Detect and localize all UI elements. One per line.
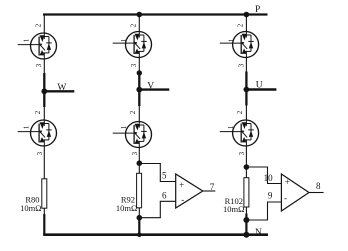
- svg-text:1: 1: [120, 38, 128, 42]
- junction N rail / column U: [243, 232, 249, 238]
- wire Q3 drain to P rail: [138, 15, 140, 33]
- bus P top rail: [43, 13, 268, 15]
- junction top rail / column V: [137, 12, 143, 18]
- transistor Q5 (top, phase U): [220, 32, 259, 58]
- wire R92 junction to N rail (bold): [138, 218, 140, 235]
- wire Q1 drain to P rail: [43, 15, 45, 34]
- wire phase W stub (bold): [44, 90, 74, 92]
- svg-text:U: U: [256, 81, 263, 91]
- svg-text:2: 2: [237, 23, 245, 27]
- wire R92 bottom: [138, 208, 140, 218]
- svg-text:-: -: [284, 193, 287, 203]
- junction node W: [41, 88, 47, 94]
- wire Q6 source down: [245, 146, 247, 167]
- resistor R102: [244, 178, 249, 207]
- svg-text:V: V: [147, 81, 154, 91]
- svg-text:9: 9: [268, 191, 273, 201]
- svg-text:3: 3: [131, 151, 139, 155]
- svg-text:P: P: [255, 5, 260, 15]
- svg-text:10mΩ: 10mΩ: [20, 203, 41, 213]
- svg-text:1: 1: [23, 125, 31, 129]
- svg-text:1: 1: [120, 125, 128, 129]
- wire Q5 drain to P rail: [245, 15, 247, 33]
- wire phase V stub (bold): [139, 88, 169, 90]
- wire Q3 source down: [138, 58, 140, 74]
- svg-text:+: +: [285, 177, 290, 187]
- wire Q2 source to R80: [43, 146, 45, 179]
- junction R92 bottom / op-amp U1 tap: [137, 215, 143, 221]
- wire phase U stub (bold): [246, 88, 276, 90]
- transistor Q3 (top, phase V): [113, 32, 152, 58]
- op-amp U2: [281, 174, 309, 211]
- svg-text:2: 2: [34, 110, 42, 114]
- transistor Q1 (top, phase W): [18, 33, 57, 59]
- wire R102 top: [245, 167, 247, 178]
- wire Q5 source down: [245, 58, 247, 73]
- svg-text:W: W: [57, 83, 66, 93]
- svg-text:3: 3: [130, 63, 138, 67]
- wire to U1 pin 6: [139, 201, 175, 217]
- wire R92 top: [138, 163, 140, 173]
- wire phase W vertical (bold): [43, 73, 45, 107]
- transistor Q6 (bottom, phase U): [220, 120, 259, 146]
- svg-text:1: 1: [227, 125, 235, 129]
- bus N bottom rail: [43, 233, 268, 236]
- op-amp U1: [176, 174, 203, 208]
- wire U2 output pin 8: [309, 192, 324, 194]
- wire W node to Q2 drain: [43, 107, 45, 121]
- transistor Q4 (bottom, phase V): [113, 122, 152, 148]
- wire R102 bottom: [245, 207, 247, 214]
- junction node U: [244, 87, 250, 93]
- svg-text:+: +: [179, 180, 184, 190]
- wire R80 to N rail (bold): [43, 214, 45, 235]
- svg-text:2: 2: [129, 23, 137, 27]
- transistor Q2 (bottom, phase W): [18, 120, 57, 146]
- svg-text:-: -: [181, 195, 184, 205]
- svg-text:10: 10: [264, 173, 274, 183]
- junction top rail / column U: [244, 12, 250, 18]
- wire R102 to N rail (bold): [245, 214, 247, 235]
- wire to U2 pin 10: [246, 167, 281, 184]
- wire to U2 pin 9: [246, 202, 281, 220]
- wire U node to Q6 drain: [245, 106, 247, 121]
- wire Q4 source down: [138, 148, 140, 164]
- svg-text:N: N: [255, 228, 262, 238]
- junction N rail / column V: [137, 232, 142, 237]
- svg-text:3: 3: [36, 151, 44, 155]
- resistor R80: [42, 179, 47, 208]
- svg-text:7: 7: [210, 182, 215, 192]
- svg-text:8: 8: [316, 181, 321, 191]
- svg-text:5: 5: [162, 171, 167, 181]
- wire V node to Q4 drain: [138, 106, 140, 122]
- junction R102 top / op-amp U2 tap: [244, 164, 250, 170]
- junction above node V: [137, 70, 142, 75]
- junction R102 bottom / op-amp U2 tap: [243, 217, 249, 223]
- wire R80 to N rail: [43, 208, 45, 214]
- svg-text:1: 1: [23, 38, 31, 42]
- junction node V: [136, 87, 142, 93]
- wire U1 output pin 7: [203, 190, 216, 192]
- resistor R92: [137, 173, 142, 208]
- svg-text:10mΩ: 10mΩ: [116, 203, 137, 213]
- svg-text:2: 2: [34, 23, 42, 27]
- svg-text:3: 3: [35, 63, 43, 67]
- wire to U1 pin 5: [139, 164, 175, 182]
- junction R92 top / op-amp U1 tap: [137, 160, 143, 166]
- svg-text:1: 1: [227, 38, 235, 42]
- wire Q1 source down: [43, 59, 45, 74]
- wire phase V vertical (bold): [138, 72, 140, 107]
- svg-text:3: 3: [238, 151, 246, 155]
- svg-text:6: 6: [162, 190, 167, 200]
- svg-text:10mΩ: 10mΩ: [223, 204, 244, 214]
- svg-text:3: 3: [237, 63, 245, 67]
- wire phase U vertical (bold): [245, 72, 247, 106]
- svg-text:2: 2: [236, 110, 244, 114]
- svg-text:2: 2: [129, 110, 137, 114]
